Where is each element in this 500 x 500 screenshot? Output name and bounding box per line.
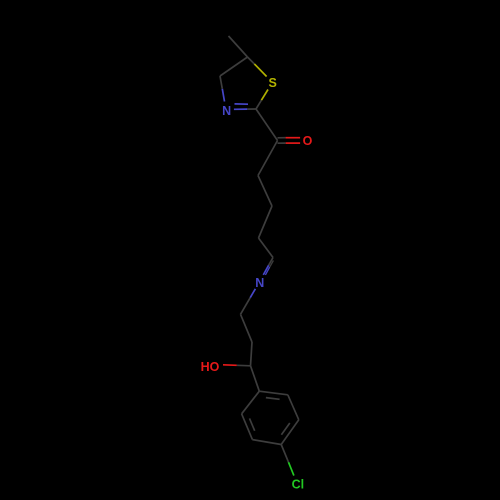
svg-text:HO: HO bbox=[201, 360, 220, 374]
svg-text:S: S bbox=[269, 76, 277, 90]
svg-text:O: O bbox=[303, 134, 313, 148]
svg-text:Cl: Cl bbox=[292, 478, 305, 492]
svg-text:N: N bbox=[222, 104, 231, 118]
svg-text:N: N bbox=[255, 276, 264, 290]
